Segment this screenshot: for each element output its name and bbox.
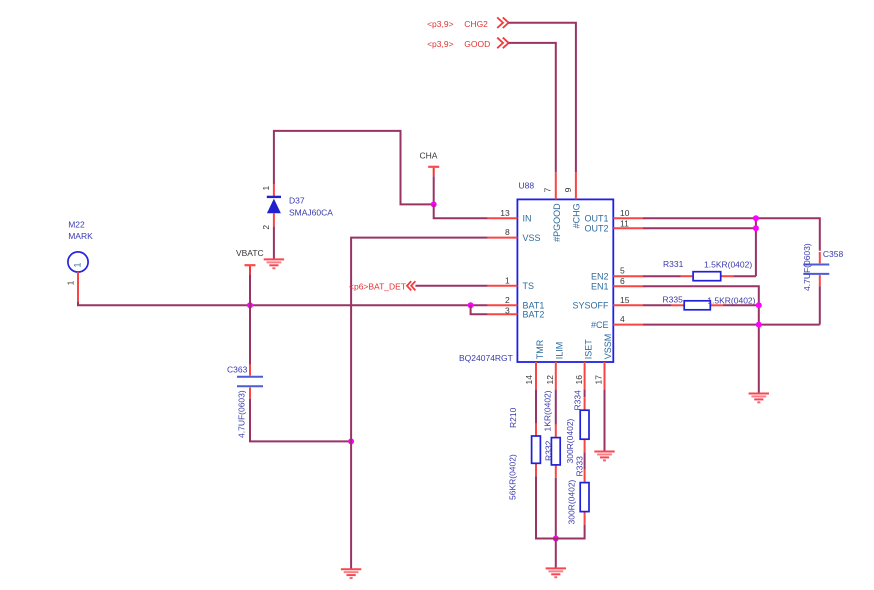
wire R331 to OUT rail [733, 275, 756, 277]
svg-text:9: 9 [563, 187, 573, 192]
svg-text:R333: R333 [574, 456, 584, 477]
svg-text:1KR(0402): 1KR(0402) [543, 390, 553, 431]
pin numbers top [543, 187, 574, 192]
pin numbers left [500, 208, 510, 316]
pin 4 #CE stub [613, 324, 643, 326]
svg-text:<p6>BAT_DET: <p6>BAT_DET [349, 282, 406, 292]
off-page connector CHG2 label [427, 19, 488, 29]
wire EN2 to R331 [643, 275, 681, 277]
svg-text:BAT2: BAT2 [523, 309, 545, 319]
junction CHA / D37 / IN [431, 201, 437, 207]
svg-text:6: 6 [620, 276, 625, 286]
wire BAT_DET to TS [415, 285, 487, 287]
resistor R334 [580, 397, 589, 452]
wire CHG2 to pin 9 [509, 23, 576, 173]
ground pin 17 [594, 452, 614, 461]
svg-text:R331: R331 [663, 259, 684, 269]
pin 10 OUT1 stub [613, 217, 643, 219]
wire M22 to BAT1 [78, 302, 488, 305]
svg-text:3: 3 [505, 306, 510, 316]
svg-text:7: 7 [543, 187, 553, 192]
svg-text:1: 1 [66, 280, 76, 285]
svg-text:4: 4 [620, 314, 625, 324]
svg-text:1.5KR(0402): 1.5KR(0402) [707, 295, 755, 305]
svg-text:<p3,9>: <p3,9> [427, 19, 454, 29]
pin 14 TMR stub [535, 362, 537, 390]
wire C358 bottom to #CE [819, 286, 821, 324]
pin 11 OUT2 stub [613, 227, 643, 229]
svg-text:<p3,9>: <p3,9> [427, 39, 454, 49]
off-page connector BAT_DET chevron [407, 281, 415, 290]
svg-text:1: 1 [261, 186, 271, 191]
M22 pin stub [77, 272, 79, 302]
wire D37 to CHA junction [274, 131, 434, 205]
svg-text:11: 11 [620, 218, 629, 228]
wire R334 to R333 [584, 452, 586, 469]
wire pin 14 down [535, 390, 537, 424]
wire SYSOFF to R335 [643, 304, 672, 306]
svg-text:CHG2: CHG2 [464, 19, 488, 29]
svg-text:10: 10 [620, 208, 630, 218]
pin 3 BAT2 stub [488, 313, 518, 315]
svg-text:EN1: EN1 [591, 281, 609, 291]
junction OUT2 rail [753, 225, 759, 231]
svg-text:U88: U88 [519, 181, 535, 191]
pin 1 TS stub [488, 285, 518, 287]
junction C363 / VSS rail [348, 438, 354, 444]
wire CHA down [433, 176, 435, 204]
svg-text:300R(0402): 300R(0402) [566, 479, 576, 524]
pin 5 EN2 stub [613, 275, 643, 277]
svg-text:8: 8 [505, 227, 510, 237]
wire #CE to C358 [643, 324, 820, 326]
svg-text:OUT1: OUT1 [584, 214, 608, 224]
junction OUT1 rail [753, 215, 759, 221]
svg-text:12: 12 [545, 375, 555, 385]
wire OUT vertical to R331 [755, 218, 757, 276]
svg-text:BQ24074RGT: BQ24074RGT [459, 353, 513, 363]
wire R332 to bottom rail [555, 478, 557, 539]
svg-text:1: 1 [505, 275, 510, 285]
pin names top (vertical) [552, 203, 581, 242]
resistor R210 [532, 423, 541, 476]
wire bottom rail to ground [555, 539, 557, 569]
svg-text:13: 13 [500, 208, 510, 218]
pin names right [572, 214, 609, 330]
op-amp U88 charger IC box [517, 199, 613, 362]
svg-text:R210: R210 [508, 407, 518, 428]
pin 2 BAT1 stub [488, 304, 518, 306]
wire D37 to ground [273, 227, 275, 260]
svg-text:IN: IN [523, 214, 532, 224]
svg-text:2: 2 [261, 225, 271, 230]
wire OUT2 [643, 227, 756, 229]
ground under D37 [264, 259, 284, 268]
svg-text:R335: R335 [663, 295, 684, 305]
svg-text:MARK: MARK [68, 231, 93, 241]
ground right rail [749, 394, 769, 403]
svg-text:16: 16 [574, 375, 584, 385]
resistor R333 [580, 470, 589, 525]
pin 15 SYSOFF stub [613, 304, 643, 306]
resistor R332 [551, 425, 560, 478]
pin 8 VSS stub [488, 237, 518, 239]
svg-text:15: 15 [620, 295, 630, 305]
svg-text:M22: M22 [68, 220, 85, 230]
pin 12 ILIM stub [555, 362, 557, 390]
svg-text:#CHG: #CHG [572, 203, 582, 228]
svg-text:VSS: VSS [523, 233, 541, 243]
power symbol VBATC [245, 265, 256, 275]
pin 6 EN1 stub [613, 285, 643, 287]
off-page connector CHG2 chevron [497, 17, 508, 28]
resistor R335 [672, 301, 723, 310]
diode D37 SMAJ60CA [267, 184, 281, 227]
svg-text:ILIM: ILIM [554, 342, 564, 360]
pin 7 #PGOOD stub [555, 172, 557, 199]
wire pin 17 to ground [604, 390, 606, 452]
wire R333 to bottom rail [536, 525, 585, 539]
svg-text:R332: R332 [544, 440, 554, 461]
junction bottom rail [553, 536, 559, 542]
junction #CE / ground rail [756, 322, 762, 328]
wire OUT1 rail [643, 218, 820, 250]
svg-text:VBATC: VBATC [236, 248, 264, 258]
wire pin 16 down [584, 390, 586, 398]
svg-text:4.7UF(0603): 4.7UF(0603) [802, 243, 812, 291]
pin 17 VSSM stub [604, 362, 606, 390]
off-page connector GOOD label [427, 39, 490, 49]
svg-text:R334: R334 [572, 390, 582, 411]
M22 reference label [68, 220, 93, 242]
pin 9 #CHG stub [575, 172, 577, 199]
D37 reference label [289, 195, 333, 217]
pin 16 ISET stub [584, 362, 586, 390]
svg-text:SYSOFF: SYSOFF [572, 301, 609, 311]
svg-text:#PGOOD: #PGOOD [552, 203, 562, 242]
wire C363 to ground rail [250, 399, 351, 442]
svg-text:TMR: TMR [535, 339, 545, 359]
svg-text:5: 5 [620, 266, 625, 276]
pin names bottom (vertical) [535, 334, 613, 360]
svg-text:GOOD: GOOD [464, 39, 490, 49]
svg-text:ISET: ISET [583, 339, 593, 360]
power symbol CHA [428, 167, 439, 177]
wire pin 12 down [555, 390, 557, 425]
svg-text:#CE: #CE [591, 320, 609, 330]
junction BAT1 / BAT2 split [468, 302, 474, 308]
svg-text:56KR(0402): 56KR(0402) [508, 454, 518, 500]
wire VSS to ground [351, 238, 488, 569]
svg-text:1: 1 [73, 262, 83, 267]
junction VBATC / BAT1 wire [247, 302, 253, 308]
capacitor C363 [237, 364, 263, 399]
svg-text:VSSM: VSSM [603, 334, 613, 360]
svg-text:2: 2 [505, 295, 510, 305]
svg-text:C363: C363 [227, 365, 248, 375]
wire R335 to ground rail [723, 304, 759, 306]
connector M22 MARK circle [68, 252, 88, 272]
svg-text:14: 14 [524, 375, 534, 385]
svg-text:EN2: EN2 [591, 271, 609, 281]
svg-text:TS: TS [523, 281, 535, 291]
pin names left [523, 214, 545, 320]
svg-text:1.5KR(0402): 1.5KR(0402) [704, 260, 752, 270]
wire BAT2 branch [471, 305, 488, 314]
resistor R331 [681, 272, 734, 281]
wire junction to IN pin [434, 204, 488, 218]
wire VBATC to C363 [249, 275, 251, 368]
off-page connector GOOD chevron [497, 38, 508, 49]
svg-text:D37: D37 [289, 195, 305, 205]
svg-text:17: 17 [593, 375, 603, 385]
pin numbers bottom [524, 375, 603, 385]
svg-text:4.7UF(0603): 4.7UF(0603) [237, 390, 247, 438]
svg-text:C358: C358 [823, 249, 844, 259]
svg-text:SMAJ60CA: SMAJ60CA [289, 208, 333, 218]
junction R335 / EN1 rail [756, 302, 762, 308]
ground bottom rail [546, 568, 566, 577]
wire EN1 to ground rail [643, 286, 759, 393]
pin numbers right [620, 208, 630, 324]
wire GOOD to pin 7 [509, 43, 556, 172]
pin 13 IN stub [488, 217, 518, 219]
capacitor C358 [803, 252, 829, 286]
ground under VSS rail [341, 569, 361, 578]
svg-text:CHA: CHA [420, 151, 438, 161]
svg-text:OUT2: OUT2 [584, 223, 608, 233]
wire R210 to bottom rail [536, 476, 556, 538]
